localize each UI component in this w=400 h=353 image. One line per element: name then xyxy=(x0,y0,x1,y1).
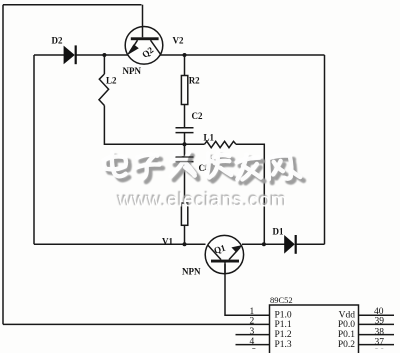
svg-text:89C52: 89C52 xyxy=(270,295,293,305)
diode D2 xyxy=(64,45,77,64)
wire R1 to V1 row xyxy=(184,225,186,244)
wire L2 branch top xyxy=(103,55,105,74)
wire Q1 base lead down to pin 1 xyxy=(225,264,270,315)
wire center junction to L1 xyxy=(185,143,205,145)
svg-text:V1: V1 xyxy=(162,236,173,246)
svg-text:38: 38 xyxy=(375,327,385,337)
wire C2 to center junction xyxy=(184,133,186,145)
node V2 junction xyxy=(183,53,187,57)
diode D1 xyxy=(284,235,297,254)
junction at D2 cathode / L2 xyxy=(102,53,106,57)
svg-text:www.elecians.com: www.elecians.com xyxy=(117,189,287,211)
svg-text:39: 39 xyxy=(375,316,385,326)
junction C2 / C4 / L1 / L2 return xyxy=(183,142,187,146)
transistor Q2 xyxy=(125,27,163,65)
junction L1 branch / V1 row xyxy=(262,242,266,246)
capacitor C4 plates re-inked over watermark xyxy=(176,144,194,161)
wire D1 cathode to right rail xyxy=(297,243,325,245)
wire L2 bottom to center junction xyxy=(104,106,184,145)
svg-text:37: 37 xyxy=(375,337,385,347)
svg-text:C2: C2 xyxy=(192,111,203,121)
wire Q1 right to D1 anode xyxy=(242,243,285,245)
transistor Q1 xyxy=(205,235,243,274)
svg-text:L1: L1 xyxy=(204,133,215,143)
wire bottom to pin2 P1.1 xyxy=(3,323,270,325)
IC 89C52 body xyxy=(270,305,359,353)
resistor R1 xyxy=(181,203,187,225)
svg-text:D2: D2 xyxy=(52,36,63,46)
svg-text:2: 2 xyxy=(250,316,255,326)
svg-text:P1.1: P1.1 xyxy=(275,320,292,330)
bottom crop masks xyxy=(245,349,263,353)
watermark chinese white xyxy=(103,151,300,180)
svg-text:L2: L2 xyxy=(106,76,117,86)
wire D2 cathode to Q2 xyxy=(77,54,129,56)
wire right rail xyxy=(324,55,326,244)
svg-text:D1: D1 xyxy=(273,227,284,237)
wire Q2 base lead from top rail xyxy=(142,5,144,27)
svg-text:NPN: NPN xyxy=(182,267,201,277)
pin 37 wire P0.2 xyxy=(359,344,395,346)
resistor R2 xyxy=(181,76,187,105)
svg-text:3: 3 xyxy=(250,327,255,337)
wire V2 node down to R2 xyxy=(184,55,186,76)
svg-text:P1.3: P1.3 xyxy=(275,340,292,350)
capacitor C2 xyxy=(176,128,194,133)
svg-text:P0.1: P0.1 xyxy=(338,330,355,340)
inductor L1 xyxy=(205,141,237,147)
svg-text:NPN: NPN xyxy=(123,66,142,76)
wire D2 anode segment xyxy=(34,54,64,56)
pin 39 wire P0.0 xyxy=(359,323,395,325)
svg-text:P0.2: P0.2 xyxy=(338,340,355,350)
watermark chinese shadow xyxy=(107,155,304,184)
wire R2 to C2 xyxy=(184,105,186,128)
wire Q2 right to V2 node and right rail xyxy=(161,54,325,56)
wire top rail xyxy=(3,4,142,6)
wire L1 to right branch down to V1 row xyxy=(236,144,264,244)
wire C4 to R1 xyxy=(184,162,186,203)
svg-text:R2: R2 xyxy=(189,75,200,85)
capacitor C4 xyxy=(176,157,194,162)
node V1 junction at R1 xyxy=(183,242,187,246)
pin 3 wire P1.2 xyxy=(236,334,270,336)
wire left D2 row vertical xyxy=(33,55,35,244)
wire center junction to C4 xyxy=(184,144,186,157)
svg-text:V2: V2 xyxy=(173,36,184,46)
wire left rail xyxy=(2,5,4,325)
svg-text:P0.0: P0.0 xyxy=(338,320,355,330)
pin 38 wire P0.1 xyxy=(359,334,395,336)
pin 4 wire P1.3 xyxy=(236,344,270,346)
svg-text:P1.2: P1.2 xyxy=(275,330,292,340)
pin 40 wire Vdd xyxy=(359,314,395,316)
inductor L2 xyxy=(99,74,109,106)
svg-text:4: 4 xyxy=(250,337,255,347)
wire V1 row left segment xyxy=(34,243,206,245)
